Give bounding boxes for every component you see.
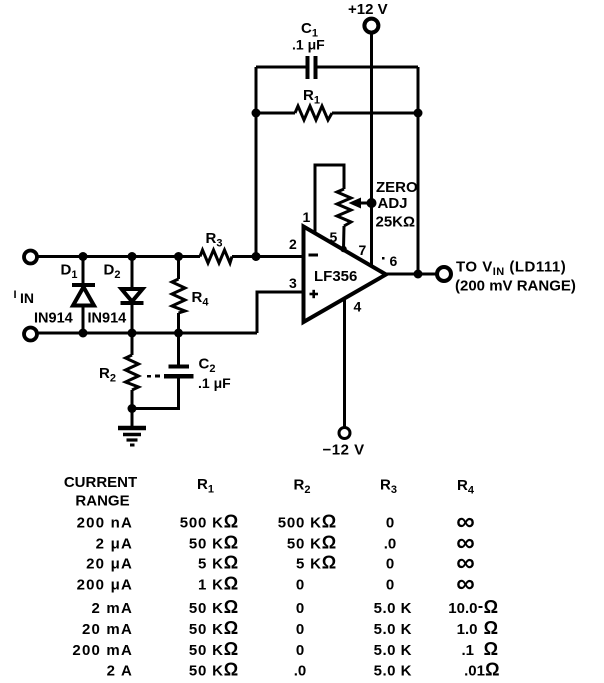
node inverting input / feedback junction <box>252 252 261 261</box>
svg-text:500 KΩ: 500 KΩ <box>278 512 337 532</box>
resistor R1 zigzag <box>295 106 332 120</box>
svg-text:ZERO: ZERO <box>376 179 418 196</box>
node R4 top junction <box>174 252 183 261</box>
wire top rail (inverting input net) <box>37 255 200 258</box>
svg-text:.01: .01 <box>464 663 485 680</box>
svg-text:200 nA: 200 nA <box>77 515 133 532</box>
svg-text:10.0: 10.0 <box>448 600 477 617</box>
node pin5 tap <box>340 246 346 252</box>
pin 6 <box>382 257 385 260</box>
svg-text:50 KΩ: 50 KΩ <box>189 618 239 638</box>
node R4/C2 bottom junction <box>174 329 183 338</box>
svg-text:ADJ: ADJ <box>378 195 408 212</box>
wire pin 4 to -12V <box>343 299 346 428</box>
wire R1 branch horizontal <box>256 112 295 115</box>
svg-text:5.0 K: 5.0 K <box>374 663 412 680</box>
minus symbol inverting input <box>309 254 319 257</box>
node D1 top junction <box>79 252 88 261</box>
svg-text:LF356: LF356 <box>314 268 357 285</box>
wire bottom rail (non-inverting input net) <box>37 332 257 335</box>
svg-text:2 A: 2 A <box>107 663 133 680</box>
svg-text:7: 7 <box>359 242 367 258</box>
svg-text:200 mA: 200 mA <box>72 642 133 659</box>
svg-text:.1 μF: .1 μF <box>198 375 231 391</box>
svg-text:0: 0 <box>296 642 304 659</box>
node wiper junction <box>367 198 377 208</box>
wire feedback left vertical <box>255 67 258 257</box>
diode D1 IN914 <box>82 257 85 285</box>
svg-text:0: 0 <box>386 515 394 532</box>
op-amp U1 LF356 triangle <box>304 227 387 323</box>
svg-text:5.0 K: 5.0 K <box>374 600 412 617</box>
svg-text:0: 0 <box>296 600 304 617</box>
diode D2 IN914 <box>131 257 134 290</box>
svg-text:Ω: Ω <box>484 639 498 659</box>
output terminal <box>437 267 451 281</box>
svg-text:IN: IN <box>20 290 34 306</box>
svg-text:Ω: Ω <box>484 597 498 617</box>
node R1/C1 right junction <box>414 109 423 118</box>
ground symbol <box>118 428 146 445</box>
plus symbol non-inverting input <box>310 290 319 298</box>
svg-text:4: 4 <box>354 299 362 315</box>
svg-text:0: 0 <box>296 621 304 638</box>
svg-text:5.0 K: 5.0 K <box>374 642 412 659</box>
svg-text:1.0: 1.0 <box>457 621 478 638</box>
wire C1 branch horizontal <box>256 66 306 69</box>
svg-text:20 mA: 20 mA <box>82 621 133 638</box>
table row 200 uA <box>77 568 475 598</box>
svg-text:TO VIN (LD111): TO VIN (LD111) <box>456 259 566 279</box>
wire pin3 jog <box>257 292 304 333</box>
svg-text:200 μA: 200 μA <box>77 577 133 594</box>
svg-text:.1: .1 <box>461 642 474 659</box>
table row 200 mA <box>72 639 498 659</box>
svg-text:∞: ∞ <box>456 568 475 598</box>
svg-text:6: 6 <box>390 253 398 269</box>
table row 20 uA <box>86 547 475 577</box>
svg-text:1: 1 <box>303 209 311 225</box>
table row 2 mA <box>92 597 498 617</box>
svg-text:3: 3 <box>289 275 297 291</box>
svg-text:CURRENT: CURRENT <box>64 474 137 491</box>
svg-text:Ω: Ω <box>485 660 499 680</box>
resistor R2 vertical <box>131 333 134 355</box>
svg-text:1 KΩ: 1 KΩ <box>198 574 239 594</box>
input terminal IIN bottom <box>24 328 37 341</box>
svg-text:5 KΩ: 5 KΩ <box>198 553 239 573</box>
power terminal +12V <box>364 19 378 33</box>
wire offset-null loop pin1 to pot top <box>315 165 344 233</box>
resistor R4 vertical <box>177 257 180 280</box>
node D2 top junction <box>128 252 137 261</box>
table row 200 nA <box>77 506 475 536</box>
potentiometer ZERO ADJ 25K zigzag <box>337 189 351 226</box>
svg-text:0: 0 <box>296 577 304 594</box>
input terminal IIN top <box>24 251 37 264</box>
svg-text:IN914: IN914 <box>34 311 73 327</box>
resistor R3 zigzag <box>200 250 232 263</box>
svg-text:Ω: Ω <box>484 618 498 638</box>
svg-text:50 KΩ: 50 KΩ <box>189 533 239 553</box>
node D2/R2 bottom junction <box>128 329 137 338</box>
svg-text:25KΩ: 25KΩ <box>376 214 416 231</box>
node output junction <box>414 270 423 279</box>
svg-text:(200 mV RANGE): (200 mV RANGE) <box>455 278 576 295</box>
wire +12V supply drop to pin 7 <box>370 33 373 266</box>
svg-text:.0: .0 <box>294 663 307 680</box>
svg-text:20 μA: 20 μA <box>86 556 133 573</box>
svg-text:I: I <box>14 289 17 301</box>
svg-text:.0: .0 <box>384 536 397 553</box>
wire output <box>386 273 437 276</box>
svg-text:500 KΩ: 500 KΩ <box>180 512 239 532</box>
node R1/C1 left junction <box>252 109 261 118</box>
node D1 bottom junction <box>79 329 88 338</box>
svg-text:5.0 K: 5.0 K <box>374 621 412 638</box>
svg-text:.1 μF: .1 μF <box>292 37 325 53</box>
svg-text:50 KΩ: 50 KΩ <box>287 533 337 553</box>
capacitor C1 plates <box>306 56 310 79</box>
svg-text:+12 V: +12 V <box>348 1 388 18</box>
svg-text:5 KΩ: 5 KΩ <box>296 553 337 573</box>
table row 2 A <box>107 660 500 680</box>
power terminal -12V <box>339 428 350 439</box>
svg-text:0: 0 <box>386 556 394 573</box>
svg-text:2 μA: 2 μA <box>96 536 133 553</box>
table row 2 uA <box>96 527 475 557</box>
svg-text:2 mA: 2 mA <box>92 600 133 617</box>
svg-text:50 KΩ: 50 KΩ <box>189 639 239 659</box>
wire ground lead <box>131 409 134 428</box>
wire feedback right vertical <box>417 67 420 274</box>
node R2/C2 junction <box>128 404 137 413</box>
svg-text:2: 2 <box>289 236 297 252</box>
svg-text:−12 V: −12 V <box>323 442 365 459</box>
capacitor C2 <box>177 333 180 365</box>
svg-text:50 KΩ: 50 KΩ <box>189 660 239 680</box>
svg-text:RANGE: RANGE <box>75 493 129 510</box>
table row 20 mA <box>82 618 498 638</box>
pot wiper arrow to +12V line <box>358 202 372 205</box>
svg-text:IN914: IN914 <box>88 311 127 327</box>
svg-text:0: 0 <box>386 577 394 594</box>
wire pot bottom lead to pin 5 <box>342 226 346 249</box>
svg-text:5: 5 <box>330 229 338 245</box>
svg-text:50 KΩ: 50 KΩ <box>189 597 239 617</box>
